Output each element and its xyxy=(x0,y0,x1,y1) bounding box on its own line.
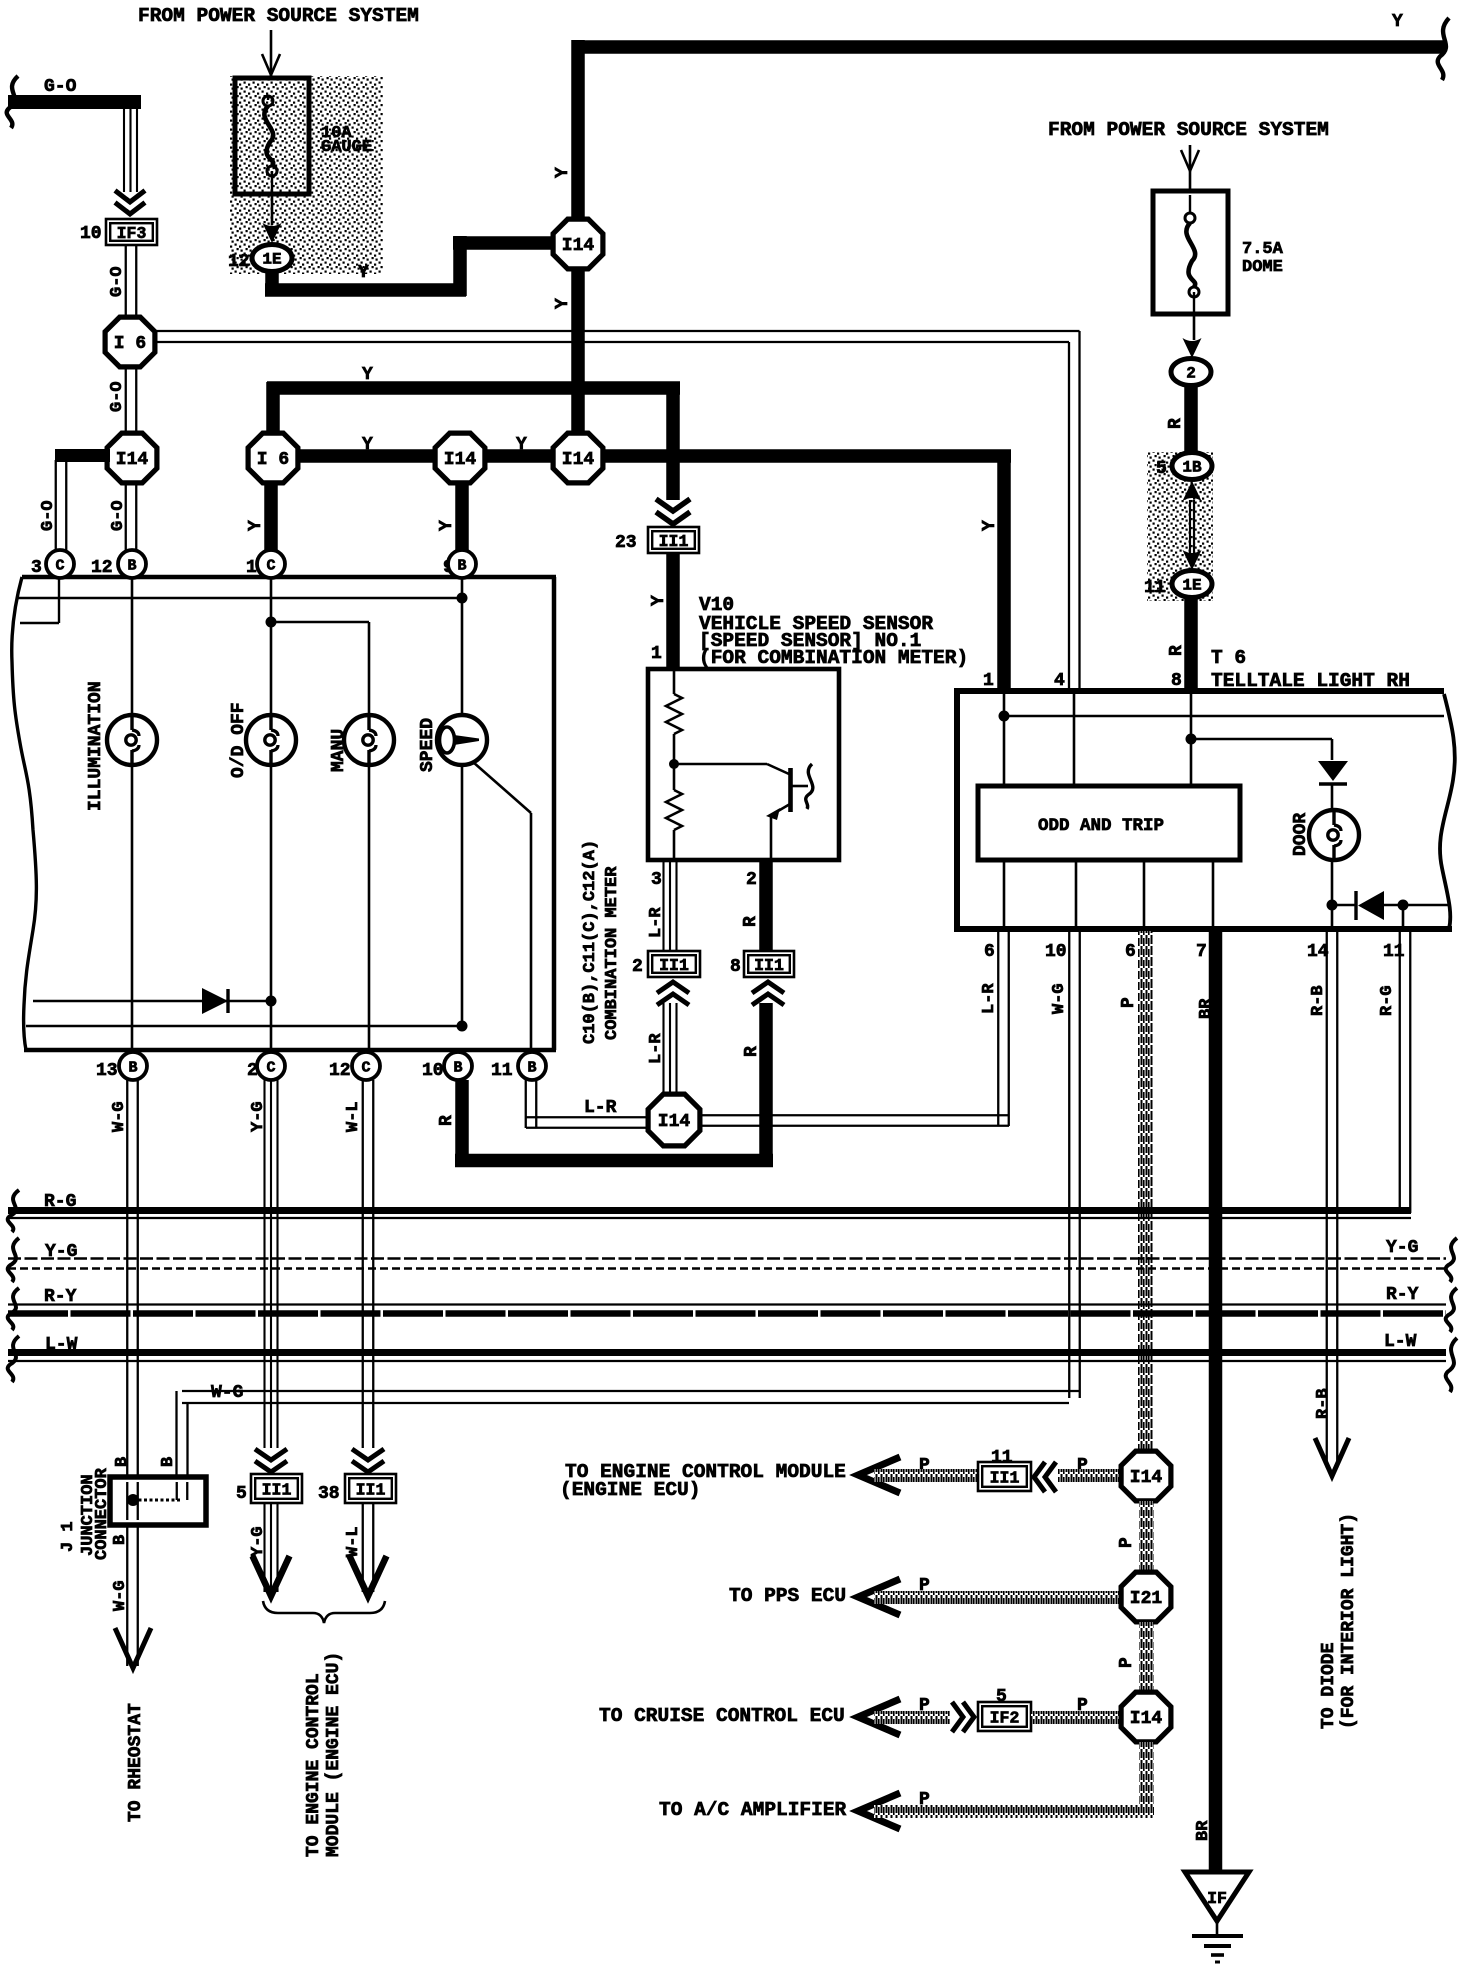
wire R-B arrow below buses xyxy=(1315,1438,1349,1476)
arrow into connector 2 xyxy=(1183,338,1202,358)
wire P hatched to II1 pin 11 xyxy=(874,1469,978,1482)
wire V10 internal top xyxy=(673,671,676,694)
arrow W-L to engine ECU xyxy=(350,1556,387,1596)
break squiggle in V10 xyxy=(806,764,813,809)
chevron arrows out of II1 pin 8 xyxy=(752,982,784,1005)
wire to torn edge from diode xyxy=(1403,904,1449,907)
svg-text:C: C xyxy=(266,1060,275,1077)
wire Y-G from meter pin 2C through buses to II1 pin 5 xyxy=(263,1080,265,1448)
connector IF3 xyxy=(106,219,157,245)
chevron arrows out of II1 pin 11 xyxy=(1034,1462,1056,1492)
svg-text:I14: I14 xyxy=(562,236,595,256)
bus wire R-Y xyxy=(8,1303,1446,1305)
svg-text:10: 10 xyxy=(1045,942,1067,962)
wire pin 4 internal xyxy=(1073,694,1076,786)
wire P between I21 and I14 xyxy=(1139,1622,1154,1694)
svg-text:Y: Y xyxy=(649,595,669,606)
svg-text:38: 38 xyxy=(318,1484,340,1504)
wire W-G from J1 to rheostat arrow xyxy=(126,1525,128,1666)
bus wire R-G xyxy=(8,1207,1411,1214)
svg-text:I14: I14 xyxy=(562,450,595,470)
wire R from 1E to telltale pin 8 xyxy=(1184,597,1198,690)
svg-text:6: 6 xyxy=(1125,942,1136,962)
svg-text:Y-G: Y-G xyxy=(249,1101,268,1132)
wire P hatched to A/C amplifier xyxy=(874,1805,1154,1818)
svg-text:I14: I14 xyxy=(658,1112,691,1132)
junction dot O/D branch xyxy=(266,617,277,628)
wire door lamp down xyxy=(1331,860,1334,905)
svg-text:B: B xyxy=(159,1457,178,1467)
svg-text:P: P xyxy=(1119,997,1139,1008)
wire between 1B and 1E xyxy=(1189,500,1191,554)
svg-text:W-L: W-L xyxy=(344,1526,363,1557)
svg-text:TO PPS ECU: TO PPS ECU xyxy=(729,1585,846,1607)
arrow to engine control module xyxy=(858,1457,900,1493)
svg-text:1: 1 xyxy=(983,671,994,691)
svg-text:6: 6 xyxy=(984,942,995,962)
chevron arrows into II1 pin 23 xyxy=(656,499,690,524)
svg-text:Y-G: Y-G xyxy=(1386,1238,1418,1258)
wire pin 14 internal xyxy=(1331,905,1334,932)
svg-text:11: 11 xyxy=(1144,578,1166,598)
lamp ILLUMINATION xyxy=(107,715,157,765)
wire Y from I14 down to pin 9B xyxy=(455,482,469,551)
wire L-R from V10 pin 3 to II1 pin 2 xyxy=(662,862,664,950)
svg-text:1: 1 xyxy=(651,644,662,664)
wire Y from II1 to V10 pin 1 xyxy=(666,553,680,671)
svg-text:P: P xyxy=(1117,1657,1137,1668)
telltale light box outline xyxy=(954,688,1444,694)
connector II1 (pin 2) xyxy=(648,951,700,977)
resistor R2 in V10 xyxy=(673,764,676,790)
connector II1 (pin 23) xyxy=(648,527,699,553)
junction dot pin 8 branch xyxy=(1186,734,1197,745)
svg-text:R-B: R-B xyxy=(1309,985,1328,1016)
arrow to PPS ECU xyxy=(858,1579,900,1615)
svg-text:T 6: T 6 xyxy=(1211,647,1246,669)
svg-text:(ENGINE ECU): (ENGINE ECU) xyxy=(560,1479,700,1501)
svg-text:8: 8 xyxy=(730,957,741,977)
svg-text:(FOR COMBINATION METER): (FOR COMBINATION METER) xyxy=(699,647,968,669)
svg-text:1: 1 xyxy=(246,558,257,578)
arrow from power source (left) xyxy=(270,30,273,74)
svg-text:B: B xyxy=(457,558,466,575)
wire G-O from I14 down to pin 12B xyxy=(125,482,127,551)
svg-text:ODD AND TRIP: ODD AND TRIP xyxy=(1038,816,1164,836)
svg-text:P: P xyxy=(1117,1537,1137,1548)
junction connector J1 box xyxy=(110,1477,206,1525)
svg-text:10: 10 xyxy=(80,224,102,244)
wire Y top trunk xyxy=(578,40,1444,54)
stipple shading around 1B/1E connectors xyxy=(1147,452,1213,601)
svg-text:Y: Y xyxy=(553,298,573,309)
svg-text:G-O: G-O xyxy=(109,500,128,531)
wire L-R pin 11B to I14 xyxy=(525,1080,527,1128)
chevron arrows into II1 pin 38 xyxy=(352,1449,384,1472)
diode above door lamp xyxy=(1318,761,1348,781)
svg-text:R: R xyxy=(742,1046,762,1057)
wire base feed of transistor Q1 xyxy=(674,763,767,766)
wire pin 8 internal xyxy=(1190,694,1193,786)
svg-text:L-W: L-W xyxy=(1384,1332,1417,1352)
svg-text:B: B xyxy=(527,1060,536,1077)
wires through J1 xyxy=(126,1482,128,1520)
svg-text:I14: I14 xyxy=(444,450,477,470)
svg-text:4: 4 xyxy=(1054,671,1065,691)
svg-text:R-G: R-G xyxy=(1378,985,1397,1016)
svg-text:2: 2 xyxy=(632,957,643,977)
svg-text:Y: Y xyxy=(1392,12,1403,32)
wire speed gauge to pin 10B xyxy=(461,765,464,1026)
connector I14 (row, mid) xyxy=(435,433,485,483)
wire speed gauge feeds xyxy=(461,578,464,715)
svg-text:DOME: DOME xyxy=(1242,258,1283,277)
svg-text:BR: BR xyxy=(1194,1820,1213,1841)
wire P between I14 and I21 xyxy=(1139,1501,1154,1573)
connector II1 (pin 8) xyxy=(744,951,794,977)
wires ODD AND TRIP to bottom pins xyxy=(1003,860,1006,929)
connector I14 (L-R) xyxy=(648,1094,700,1146)
svg-text:8: 8 xyxy=(1171,671,1182,691)
svg-text:1B: 1B xyxy=(1182,459,1202,477)
wire R thick from V10 pin 2 to II1 pin 8 xyxy=(759,862,773,950)
svg-text:FROM POWER SOURCE SYSTEM: FROM POWER SOURCE SYSTEM xyxy=(138,5,419,27)
svg-text:R: R xyxy=(741,916,761,927)
svg-text:1E: 1E xyxy=(1182,577,1201,595)
arrow to rheostat xyxy=(115,1628,151,1668)
svg-text:I 6: I 6 xyxy=(114,334,146,354)
wire fuse to connector 2 xyxy=(1193,314,1196,340)
svg-text:7.5A: 7.5A xyxy=(1242,240,1284,259)
svg-text:C: C xyxy=(361,1060,370,1077)
connector I 6 (row) xyxy=(248,433,298,483)
junction dot diode to O/D wire xyxy=(266,996,277,1007)
wire W-G from pin 10 down and left to J1 xyxy=(1068,931,1070,1398)
svg-text:IF3: IF3 xyxy=(117,224,147,243)
svg-text:I14: I14 xyxy=(1130,1709,1163,1729)
wire O/D OFF lamp xyxy=(270,578,273,715)
svg-text:11: 11 xyxy=(491,1061,513,1081)
wire illumination lamp xyxy=(131,578,134,715)
wire G-O from I14 left to pin 3C xyxy=(55,449,110,462)
fuse 10A GAUGE box xyxy=(235,78,309,194)
wire from fuse to connector 1E xyxy=(271,194,274,225)
svg-text:I21: I21 xyxy=(1130,1589,1163,1609)
svg-text:W-G: W-G xyxy=(1050,983,1069,1014)
svg-text:II1: II1 xyxy=(262,1481,292,1500)
svg-text:G-O: G-O xyxy=(39,500,58,531)
wire W-G from meter pin 13B down to J1 xyxy=(126,1080,128,1476)
chevron arrows into IF2 xyxy=(952,1702,974,1732)
svg-text:COMBINATION METER: COMBINATION METER xyxy=(603,866,622,1040)
svg-text:5: 5 xyxy=(1156,459,1167,479)
wire W-L from II1 pin 38 to ECU arrow xyxy=(362,1503,364,1592)
svg-text:IF2: IF2 xyxy=(990,1709,1020,1728)
wire R-B from pin 14 down to arrow xyxy=(1326,931,1328,1468)
svg-text:TO A/C AMPLIFIER: TO A/C AMPLIFIER xyxy=(659,1799,847,1821)
junction dot below door lamp xyxy=(1327,900,1338,911)
svg-text:L-R: L-R xyxy=(584,1098,617,1118)
wire Y upper horizontal to vehicle speed sensor xyxy=(267,381,680,395)
wire fuse feed (left) xyxy=(270,75,273,100)
wire P hatched from pin 6 down to I14 chain xyxy=(1138,931,1153,1450)
wire R from 2 to 1B xyxy=(1184,385,1198,455)
combination meter box outline xyxy=(22,575,556,580)
svg-text:C10(B),C11(C),C12(A): C10(B),C11(C),C12(A) xyxy=(581,840,600,1044)
svg-text:R-Y: R-Y xyxy=(1386,1285,1419,1305)
svg-text:II1: II1 xyxy=(356,1481,386,1500)
wire P hatched from I14 to chevrons xyxy=(1058,1469,1124,1482)
svg-text:I14: I14 xyxy=(116,450,149,470)
svg-text:Y: Y xyxy=(553,167,573,178)
wire pin 11 internal xyxy=(1402,905,1405,932)
arrow into connector 1E xyxy=(263,223,282,243)
wire G-O from IF3 to I 6 xyxy=(125,245,127,317)
wire Y from 1E to connector I14 (elbow) xyxy=(265,270,279,290)
svg-text:3: 3 xyxy=(651,870,662,890)
svg-text:ILLUMINATION: ILLUMINATION xyxy=(86,681,106,811)
svg-text:TO CRUISE CONTROL ECU: TO CRUISE CONTROL ECU xyxy=(599,1705,845,1727)
wire P hatched to IF2 chevrons xyxy=(874,1711,950,1724)
svg-text:MODULE (ENGINE ECU): MODULE (ENGINE ECU) xyxy=(324,1652,344,1857)
diode horizontal in telltale xyxy=(1354,891,1357,920)
connector I21 xyxy=(1121,1572,1171,1622)
chevron arrows into IF3 xyxy=(115,191,145,215)
svg-text:Y: Y xyxy=(437,520,457,531)
fuse 7.5A DOME box xyxy=(1153,191,1228,314)
junction dot right of diode xyxy=(1398,900,1409,911)
svg-text:W-G: W-G xyxy=(110,1101,129,1132)
break squiggle left G-O entry xyxy=(7,76,18,128)
svg-text:BR: BR xyxy=(1197,998,1216,1019)
svg-text:R-B: R-B xyxy=(1314,1388,1333,1419)
wire R1 to junction xyxy=(673,734,676,766)
svg-text:B: B xyxy=(127,558,136,575)
svg-text:I14: I14 xyxy=(1130,1468,1163,1488)
svg-text:(FOR INTERIOR LIGHT): (FOR INTERIOR LIGHT) xyxy=(1339,1513,1359,1729)
break squiggles left bus edge xyxy=(8,1190,19,1232)
V10 sensor box xyxy=(648,669,839,860)
svg-text:R: R xyxy=(1166,418,1186,429)
wire R thick from II1 pin 8 down to meter pin 10B xyxy=(759,1003,773,1167)
wire speed gauge diagonal to pin 11B xyxy=(473,762,531,813)
arrow from power source (right) xyxy=(1189,145,1192,170)
stipple shading around 10A GAUGE fuse xyxy=(230,76,383,274)
svg-text:B: B xyxy=(111,1535,130,1545)
svg-text:TO ENGINE CONTROL: TO ENGINE CONTROL xyxy=(304,1673,324,1857)
transistor Q1 emitter with arrow xyxy=(773,804,790,814)
bus bar in J1 (dotted) xyxy=(133,1499,182,1502)
svg-text:Y: Y xyxy=(362,365,373,385)
svg-text:W-G: W-G xyxy=(211,1383,243,1403)
svg-text:7: 7 xyxy=(1196,942,1207,962)
svg-text:Y: Y xyxy=(246,520,266,531)
svg-text:G-O: G-O xyxy=(108,266,127,297)
svg-text:14: 14 xyxy=(1307,942,1329,962)
bus wire Y-G xyxy=(8,1257,1446,1260)
svg-text:FROM POWER SOURCE SYSTEM: FROM POWER SOURCE SYSTEM xyxy=(1048,119,1329,141)
svg-text:II1: II1 xyxy=(659,532,689,551)
wire to 7.5A DOME fuse xyxy=(1189,171,1192,193)
junction dot pin 1 xyxy=(999,711,1010,722)
transistor Q1 collector stub to break xyxy=(792,785,808,788)
meter inner line to pin 10B from page edge xyxy=(26,1025,462,1028)
transistor Q1 base bar xyxy=(788,768,793,812)
connector IF2 (pin 5) xyxy=(978,1702,1031,1731)
fuse 7.5A DOME element xyxy=(1185,213,1195,223)
svg-text:II1: II1 xyxy=(990,1469,1020,1488)
svg-text:R: R xyxy=(1167,645,1187,656)
junction dot pin 10B line xyxy=(457,1021,468,1032)
svg-text:C: C xyxy=(55,558,64,575)
lamp DOOR xyxy=(1309,810,1359,860)
svg-text:L-R: L-R xyxy=(647,1033,666,1064)
svg-text:W-G: W-G xyxy=(111,1580,130,1611)
svg-text:I 6: I 6 xyxy=(257,450,289,470)
svg-text:Y: Y xyxy=(358,263,369,283)
wire R-G from pin 11 down to R-G bus xyxy=(1399,931,1401,1213)
svg-text:R: R xyxy=(437,1115,457,1126)
wire branch to door lamp xyxy=(1191,738,1332,741)
connector I14 (P chain bottom) xyxy=(1121,1692,1171,1742)
brace under ECU arrows xyxy=(263,1601,385,1623)
svg-text:10: 10 xyxy=(422,1061,444,1081)
svg-text:11: 11 xyxy=(1383,942,1405,962)
arrow to cruise control ECU xyxy=(858,1699,900,1735)
junction dot in V10 xyxy=(669,759,679,769)
connector I14 (top) xyxy=(553,219,603,269)
svg-text:5: 5 xyxy=(236,1484,247,1504)
svg-text:23: 23 xyxy=(615,533,637,553)
connector II1 (pin 11) xyxy=(978,1462,1031,1491)
svg-text:GAUGE: GAUGE xyxy=(321,138,372,157)
svg-text:B: B xyxy=(113,1457,132,1467)
connector I14 (row, right) xyxy=(553,433,603,483)
svg-text:G-O: G-O xyxy=(44,77,77,97)
ground symbol IF xyxy=(1185,1872,1249,1921)
bus wire L-W xyxy=(8,1349,1446,1356)
resistor R1 in V10 xyxy=(666,694,682,734)
svg-text:12: 12 xyxy=(329,1061,351,1081)
svg-text:B: B xyxy=(128,1060,137,1077)
wire Y from I 6 down to pin 1C xyxy=(264,482,278,551)
meter inner feed line from page edge to speed lamp xyxy=(18,597,462,600)
wire branch to MANU lamp xyxy=(271,621,369,624)
svg-text:Y-G: Y-G xyxy=(249,1526,268,1557)
break squiggles right bus edge xyxy=(1446,1238,1457,1282)
svg-text:II1: II1 xyxy=(754,956,784,975)
svg-text:II1: II1 xyxy=(659,956,689,975)
chevron arrows into II1 pin 5 xyxy=(255,1449,287,1472)
meter box notch at top left xyxy=(58,577,60,623)
connector oval 2 xyxy=(1171,359,1211,386)
wire L-R from II1 down to I14 xyxy=(662,1003,664,1096)
svg-text:L-R: L-R xyxy=(647,907,666,938)
svg-text:1E: 1E xyxy=(262,251,281,269)
svg-text:2: 2 xyxy=(746,870,757,890)
svg-text:Y: Y xyxy=(516,435,527,455)
arrow down into 1E xyxy=(1183,550,1202,570)
lamp O/D OFF xyxy=(246,715,296,765)
diode in combination meter xyxy=(33,1000,271,1003)
arrow to A/C amplifier xyxy=(858,1793,900,1829)
wire P hatched to I21 xyxy=(874,1591,1122,1604)
speedometer symbol SPEED xyxy=(437,715,487,765)
svg-text:SPEED: SPEED xyxy=(418,718,438,772)
junction dot at speed feed xyxy=(457,593,468,604)
svg-text:J 1: J 1 xyxy=(59,1521,78,1552)
arrow Y-G to engine ECU xyxy=(253,1556,290,1596)
connector II1 (pin 5) xyxy=(251,1474,302,1503)
junction dot in J1 xyxy=(127,1494,139,1506)
svg-text:TO DIODE: TO DIODE xyxy=(1319,1642,1339,1729)
chevron arrows out of II1 pin 2 xyxy=(657,982,689,1005)
svg-text:C: C xyxy=(266,558,275,575)
wire G-O entry from page edge xyxy=(8,95,141,109)
svg-text:B: B xyxy=(453,1060,462,1077)
svg-text:Y: Y xyxy=(362,435,373,455)
wire W-L from meter pin 12C through buses to II1 pin 38 xyxy=(362,1080,364,1448)
connector I14 (P chain top) xyxy=(1121,1451,1171,1501)
break squiggle top right of Y trunk xyxy=(1438,18,1449,80)
wire P hatched IF2 to I14 xyxy=(1031,1711,1124,1724)
svg-text:2: 2 xyxy=(1186,365,1196,383)
svg-text:13: 13 xyxy=(96,1061,118,1081)
wire Y octagon row trunk xyxy=(290,449,1011,463)
wire L-R from I14 right up to telltale pin 6 xyxy=(700,1114,1009,1116)
wire G-O from I 6 down to I14 xyxy=(125,367,127,434)
svg-text:TO RHEOSTAT: TO RHEOSTAT xyxy=(126,1703,146,1822)
connector I 6 (left) xyxy=(105,317,155,367)
svg-text:W-L: W-L xyxy=(344,1101,363,1132)
wire BR thick from pin 7 to ground xyxy=(1209,931,1223,1872)
arrow up into 1B xyxy=(1183,481,1202,501)
svg-text:12: 12 xyxy=(91,558,113,578)
lamp MANU xyxy=(344,715,394,765)
svg-text:G-O: G-O xyxy=(108,381,127,412)
svg-text:3: 3 xyxy=(31,558,42,578)
wire Y-G from II1 pin 5 to ECU arrow xyxy=(263,1503,265,1592)
fuse 10A GAUGE element xyxy=(263,96,273,106)
wire Y from I14 down to I14 row xyxy=(571,268,585,436)
wire G-O long horizontal to telltale pin 4 xyxy=(155,330,1080,332)
svg-text:Y: Y xyxy=(980,520,1000,531)
wire pin 1 internal xyxy=(1003,694,1006,786)
connector II1 (pin 38) xyxy=(345,1474,396,1503)
svg-text:L-R: L-R xyxy=(980,983,999,1014)
svg-text:IF: IF xyxy=(1207,1889,1227,1908)
box ODD AND TRIP xyxy=(978,786,1240,860)
svg-text:12: 12 xyxy=(228,252,250,272)
telltale inner line from pin 1 to torn edge xyxy=(1002,715,1444,718)
connector I14 (left) xyxy=(107,433,157,483)
